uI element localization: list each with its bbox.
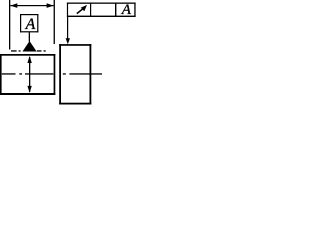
measurement arrowhead down	[27, 86, 31, 93]
left cylinder: right edge	[54, 54, 56, 95]
left cylinder: left edge	[0, 54, 2, 95]
leader arrowhead	[66, 38, 70, 44]
datum triangle (filled)	[23, 41, 37, 52]
centerline dash 2	[25, 73, 53, 74]
phantom dash right long	[37, 50, 42, 51]
leader line from FCF	[67, 17, 68, 39]
circular runout symbol arrowhead	[81, 5, 87, 11]
datum feature symbol box: right edge	[37, 14, 38, 32]
centerline dash 1	[2, 73, 16, 74]
dimension line	[10, 5, 53, 6]
extension line right	[54, 0, 55, 44]
centerline dot 2	[63, 73, 66, 74]
right cylinder: left edge	[59, 44, 61, 104]
extension line left	[9, 0, 10, 50]
datum feature symbol box: top edge	[20, 14, 38, 15]
measurement arrowhead up	[27, 56, 31, 63]
svg-text:A: A	[121, 2, 132, 18]
measurement double arrow shaft	[29, 57, 30, 92]
left cylinder: bottom edge	[0, 93, 55, 95]
right cylinder: bottom edge	[59, 103, 91, 105]
left cylinder: top edge	[0, 54, 55, 56]
dimension arrowhead left	[10, 3, 17, 8]
right cylinder: right edge	[90, 44, 92, 104]
datum symbol stem	[29, 32, 30, 42]
feature control frame: top edge	[67, 3, 136, 4]
background	[0, 0, 136, 109]
dimension arrowhead right	[47, 3, 54, 8]
FCF divider 2	[115, 3, 116, 18]
feature control frame: right edge	[134, 3, 135, 18]
phantom dash left long	[11, 50, 17, 51]
centerline dot 1	[19, 73, 22, 74]
phantom dot left	[19, 50, 21, 51]
datum feature symbol box: bottom edge	[20, 31, 38, 32]
svg-text:A: A	[25, 16, 36, 33]
datum feature symbol box: left edge	[20, 14, 21, 32]
feature control frame: left edge	[67, 3, 68, 18]
FCF divider 1	[90, 3, 91, 18]
right cylinder: top edge	[59, 44, 91, 46]
centerline dash 3	[69, 73, 102, 74]
phantom dot right	[44, 50, 46, 51]
feature control frame: bottom edge	[67, 16, 136, 17]
circular runout symbol shaft	[77, 8, 85, 14]
